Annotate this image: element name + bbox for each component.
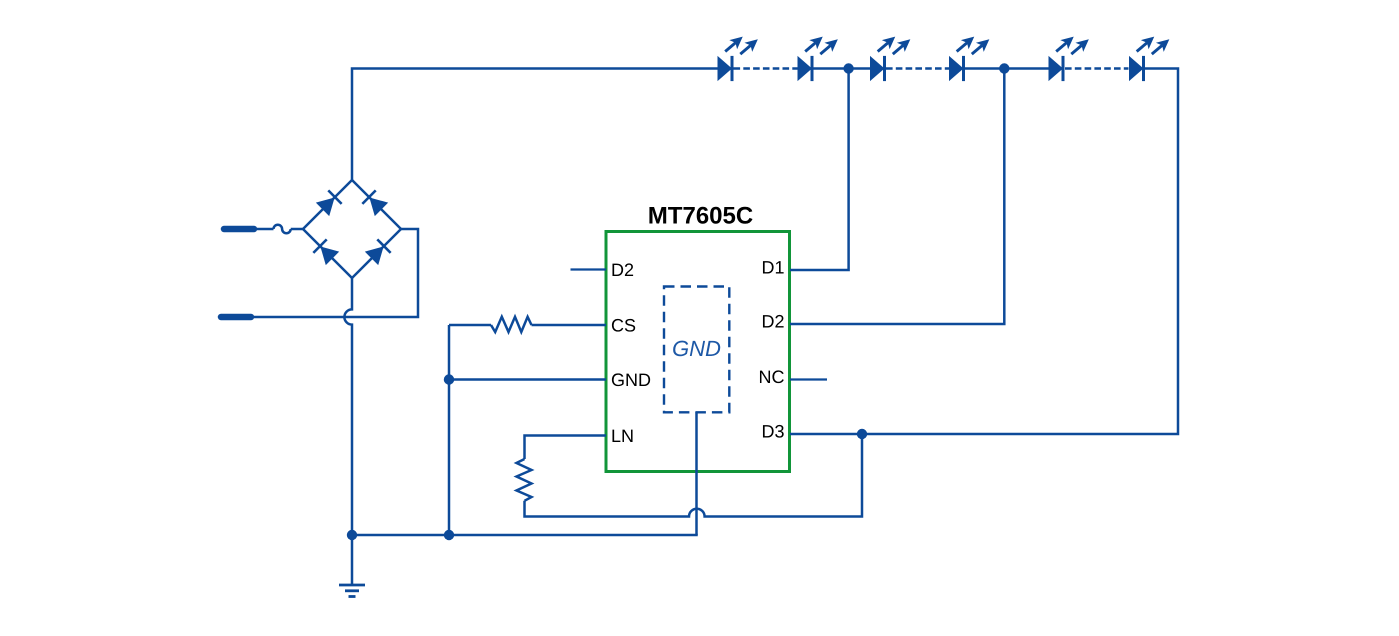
pin stub D2 left (floating) xyxy=(571,268,607,270)
bridge diode lower-right xyxy=(365,239,391,265)
resistor R2 (LN) xyxy=(517,459,532,501)
IC U1 MT7605C body (green box) xyxy=(606,232,790,472)
wire bridge bottom vertex down to ground (hops over AC wire) xyxy=(344,278,352,584)
pin label D2 (right side) xyxy=(763,315,784,328)
wire terminal2 right, up to bridge right vertex xyxy=(253,229,418,317)
LED3 in LED string with light-emission arrows xyxy=(870,37,910,81)
LED2 in LED string with light-emission arrows xyxy=(798,37,838,81)
pin label D3 (right side) xyxy=(763,425,784,438)
wire: bridge top vertex up and across to LED1 anode xyxy=(352,69,718,181)
pin label D1 (right side) xyxy=(763,261,784,273)
bridge rectifier diamond outline xyxy=(303,180,401,278)
junction dot GND/CS branch xyxy=(444,374,454,384)
pin label LN (left side) xyxy=(612,430,632,442)
wire GND pin to CS branch xyxy=(449,378,606,381)
pin label D2 (left side) xyxy=(612,263,633,276)
wire LED2 cathode to node A xyxy=(813,67,849,70)
AC input terminal 2 (thick prong) xyxy=(221,314,251,321)
LED6 in LED string with light-emission arrows xyxy=(1129,37,1169,81)
node B junction dot (top of D2 string) xyxy=(999,63,1009,73)
LED5 in LED string with light-emission arrows xyxy=(1049,37,1089,81)
IC label MT7605C xyxy=(649,207,752,224)
wire LED6 cathode right, down right side, left to D3 pin xyxy=(790,69,1178,435)
junction dot bottom rail / CS-GND branch xyxy=(444,530,454,540)
pin label CS (left side) xyxy=(612,319,635,332)
ground symbol xyxy=(339,584,365,587)
wire node A down to D1 pin xyxy=(790,69,849,271)
GND pad label xyxy=(673,341,720,357)
wire LN pin left and down to resistor R2 xyxy=(525,436,607,460)
wire LED4 cathode to node B xyxy=(965,67,1004,70)
wire resistor R1 left lead xyxy=(449,324,491,327)
AC input terminal 1 (thick prong) xyxy=(224,226,254,233)
wire node B down to D2 pin xyxy=(790,69,1004,325)
wire node B to LED5 anode xyxy=(1004,67,1048,70)
wire CS branch: vertical from bottom rail up to resistor level xyxy=(448,325,451,535)
wire node A to LED3 anode xyxy=(849,67,870,70)
wire R2 bottom right along, hop over GND wire, up to node C xyxy=(525,434,863,517)
LED1 in LED string with light-emission arrows xyxy=(718,37,758,81)
wire GND pad (dashed box) down to bottom rail xyxy=(695,412,698,535)
resistor R1 (CS current-set) xyxy=(491,317,532,332)
bridge diode upper-left xyxy=(316,190,342,216)
wire squiggle to bridge left vertex xyxy=(291,228,303,231)
bridge diode lower-left xyxy=(313,239,339,265)
wire terminal1 to squiggle xyxy=(256,228,274,231)
pin stub NC right (floating) xyxy=(790,378,827,380)
dashed wire between LED5 and LED6 xyxy=(1065,67,1129,70)
pin label NC (right side) xyxy=(760,370,784,383)
pin label GND (left side) xyxy=(612,373,650,386)
wire-break squiggle (fuse squiggle) xyxy=(274,225,291,234)
wire bottom ground rail xyxy=(352,534,698,537)
bridge diode upper-right xyxy=(362,190,388,216)
GND exposed pad (dashed box) xyxy=(664,287,729,413)
junction dot at ground rail / bridge bottom xyxy=(347,530,357,540)
dashed wire between LED3 and LED4 xyxy=(886,67,949,70)
wire resistor R1 to CS pin xyxy=(532,324,607,327)
node A junction dot (top of D1 string) xyxy=(843,63,853,73)
node C junction dot on D3 line xyxy=(857,429,867,439)
dashed wire between LED1 and LED2 xyxy=(734,67,799,70)
LED4 in LED string with light-emission arrows xyxy=(949,37,989,81)
